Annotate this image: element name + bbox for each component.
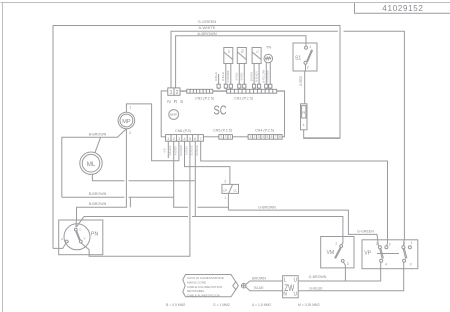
wire G-BROWN label 2 (309, 275, 327, 279)
wire VM3 to G-BROWN (343, 262, 345, 281)
wire BLUE label (254, 286, 264, 290)
wire B-BROWN label 2 (89, 202, 107, 206)
connector CN4 (248, 129, 282, 140)
wire PN C to VM (G-BROWN) (77, 217, 343, 245)
svg-text:B = 0,5 MM2: B = 0,5 MM2 (166, 303, 185, 307)
wire G-BLUE ZW to VP3 (298, 262, 404, 290)
lamp R L (301, 104, 308, 130)
svg-text:TL: TL (255, 49, 259, 53)
connector NRS (167, 88, 184, 105)
svg-text:CN6 (P.5): CN6 (P.5) (175, 129, 191, 133)
svg-text:1: 1 (224, 196, 226, 200)
svg-text:2: 2 (224, 179, 226, 183)
wire CN6 pin1 stub (167, 141, 169, 158)
svg-text:G = 1 MM2: G = 1 MM2 (213, 303, 230, 307)
svg-text:R: R (302, 110, 305, 115)
wire G-GREEN label (198, 19, 217, 24)
wire G-GREEN to PN pin P (53, 243, 66, 248)
motor ML (80, 152, 102, 174)
svg-text:VM: VM (327, 250, 335, 256)
thermostat TM (237, 48, 246, 90)
svg-text:1: 1 (129, 106, 131, 110)
wire labels above CN3 (215, 69, 270, 82)
svg-text:6: 6 (271, 135, 273, 139)
terminal block ZW (283, 276, 299, 298)
svg-text:N R S: N R S (167, 99, 184, 105)
svg-text:P: P (61, 238, 63, 242)
svg-text:B-BROWN: B-BROWN (89, 202, 107, 206)
svg-text:M-RED: M-RED (236, 72, 239, 80)
svg-text:G-GREEN: G-GREEN (198, 19, 217, 24)
wire CN6 pin5 to PN V (81, 141, 190, 256)
wire G-GREEN label 2 (357, 229, 374, 233)
svg-text:S1: S1 (295, 55, 301, 61)
svg-text:2: 2 (307, 66, 309, 70)
svg-text:2-BLACK: 2-BLACK (169, 145, 172, 155)
svg-text:1: 1 (309, 45, 311, 49)
svg-text:M-BLUE: M-BLUE (215, 72, 218, 81)
connector CN5 (213, 129, 232, 140)
svg-text:G-BLUE: G-BLUE (309, 286, 323, 290)
svg-text:TM: TM (241, 49, 245, 54)
svg-text:BROWN: BROWN (252, 277, 266, 281)
connector CN3 (227, 89, 285, 100)
legend wire sizes (166, 303, 320, 307)
svg-text:1: 1 (335, 242, 337, 246)
wire MP pin2 to left (62, 129, 127, 198)
wire MP pin2 down (76, 129, 127, 227)
title block 41029152 (355, 3, 450, 13)
svg-text:1: 1 (404, 241, 406, 245)
wire B-BROWN label 1 (89, 192, 107, 196)
svg-text:2: 2 (376, 242, 378, 246)
svg-text:V: V (84, 237, 86, 241)
svg-text:B-BROWN: B-BROWN (89, 192, 107, 196)
wire labels below CN6 (164, 145, 199, 156)
lamp TN (264, 45, 273, 90)
svg-text:3: 3 (229, 135, 231, 139)
wire S1 to RL (304, 64, 307, 104)
svg-text:CABLE ALIMENTACION: CABLE ALIMENTACION (187, 293, 220, 297)
svg-text:2: 2 (176, 90, 179, 96)
wire G-BROWN ZW to VP4 (298, 262, 381, 281)
wire A-BROWN label (197, 31, 216, 36)
svg-text:2: 2 (254, 135, 256, 139)
wire CN6 pin7 long (201, 141, 388, 246)
pressure switch PN (59, 220, 103, 255)
svg-text:CN3 (P.2.5): CN3 (P.2.5) (234, 96, 253, 100)
wire CN6 pin6 down (194, 141, 196, 216)
svg-text:VP: VP (364, 251, 371, 257)
svg-text:XC-BLUE: XC-BLUE (196, 145, 199, 156)
wire CN6 pin2 down (174, 141, 229, 207)
svg-text:1: 1 (249, 135, 251, 139)
svg-text:CL: CL (233, 188, 237, 192)
svg-text:A-BROWN: A-BROWN (197, 31, 216, 36)
connector CN2 (180, 89, 227, 100)
svg-text:M-RED: M-RED (241, 72, 244, 80)
svg-text:BLUE: BLUE (254, 286, 264, 290)
svg-text:G-BROWN: G-BROWN (258, 206, 276, 210)
svg-text:M-BROWN: M-BROWN (227, 70, 230, 82)
wire G-GREEN (53, 26, 340, 249)
wire A-BROWN (176, 36, 306, 88)
wire CP to VP (G-BROWN) (228, 193, 378, 246)
svg-text:M-BROWN: M-BROWN (267, 70, 270, 82)
wire BROWN (246, 281, 283, 284)
wire A-WHITE (171, 31, 404, 245)
svg-text:5: 5 (266, 135, 268, 139)
svg-text:3: 3 (410, 262, 412, 266)
mains cord flag (183, 275, 239, 298)
wire ML to B-BROWN (95, 137, 101, 152)
svg-text:PN: PN (91, 232, 98, 238)
svg-text:CP: CP (223, 188, 227, 192)
switch S1 (293, 43, 317, 71)
svg-text:41029152: 41029152 (382, 4, 423, 13)
svg-text:3-GREY: 3-GREY (185, 146, 188, 155)
svg-text:7: 7 (275, 135, 277, 139)
svg-text:4: 4 (262, 135, 264, 139)
wire G-BROWN label (258, 206, 276, 210)
svg-text:2: 2 (129, 131, 131, 135)
svg-text:M-YELLOW: M-YELLOW (263, 69, 266, 82)
capacitor CP (222, 179, 239, 200)
svg-text:SC: SC (214, 103, 227, 118)
svg-text:S-RED: S-RED (299, 75, 303, 86)
svg-text:M = 0,35 MM2: M = 0,35 MM2 (298, 303, 320, 307)
svg-text:3: 3 (347, 262, 349, 266)
wire A-WHITE label (199, 25, 216, 30)
wire S-RED label (299, 75, 303, 86)
switch VM (321, 237, 354, 268)
wire CN3 pin1 stub (218, 74, 220, 89)
svg-text:A-GREY: A-GREY (175, 146, 178, 156)
svg-text:N-GREEN: N-GREEN (180, 145, 183, 156)
wire CN6 pin4 to CP (185, 141, 230, 184)
svg-text:E/N: E/N (164, 148, 167, 152)
wire RL bottom to G-GREEN (304, 130, 340, 139)
wire ML bottom (92, 174, 195, 180)
svg-text:CN4 (P.2.5): CN4 (P.2.5) (255, 129, 274, 133)
svg-text:M-BLUE: M-BLUE (222, 72, 225, 81)
svg-text:M-GREY: M-GREY (251, 71, 254, 81)
svg-text:2: 2 (225, 135, 227, 139)
svg-text:A = 1,5 MM2: A = 1,5 MM2 (252, 303, 271, 307)
terminal crimps above CN3 (217, 84, 272, 88)
svg-text:8: 8 (279, 135, 281, 139)
svg-text:1: 1 (220, 135, 222, 139)
svg-text:3: 3 (258, 135, 260, 139)
svg-text:4: 4 (385, 262, 387, 266)
switch VP (362, 240, 418, 269)
svg-text:B-BROWN: B-BROWN (89, 132, 107, 136)
svg-text:G-GREEN: G-GREEN (357, 229, 374, 233)
wire BROWN label (252, 277, 266, 281)
svg-text:ZW: ZW (284, 283, 294, 293)
svg-text:2: 2 (389, 242, 391, 246)
svg-text:1: 1 (410, 241, 412, 245)
wire BLUE (246, 287, 283, 291)
svg-text:A-WHITE: A-WHITE (199, 25, 216, 30)
svg-text:TN: TN (266, 45, 271, 50)
svg-text:1: 1 (170, 90, 173, 96)
svg-text:2C-BLUE: 2C-BLUE (191, 145, 194, 156)
svg-text:ML: ML (87, 161, 96, 168)
wire G-BLUE label (309, 286, 323, 290)
svg-text:MP: MP (122, 119, 131, 125)
wire B-BROWN label MP (89, 132, 107, 136)
svg-text:BEEP: BEEP (170, 113, 177, 117)
thermostat TC (224, 48, 233, 90)
motor MP (118, 106, 135, 135)
thermostat TL (252, 48, 261, 90)
buzzer BEEP (169, 110, 179, 120)
svg-text:CN5 (P.2.5): CN5 (P.2.5) (213, 129, 232, 133)
connector CN6 (166, 129, 204, 141)
svg-text:M-BLACK: M-BLACK (256, 71, 259, 82)
wire B-BROWN 1 (62, 197, 174, 207)
plug (241, 283, 246, 288)
controller board SC (161, 91, 284, 137)
svg-text:CN2 (P.2.5): CN2 (P.2.5) (195, 96, 214, 100)
wire MP pin1 to CN6 pin3 (126, 104, 178, 161)
svg-text:G-BROWN: G-BROWN (309, 275, 327, 279)
